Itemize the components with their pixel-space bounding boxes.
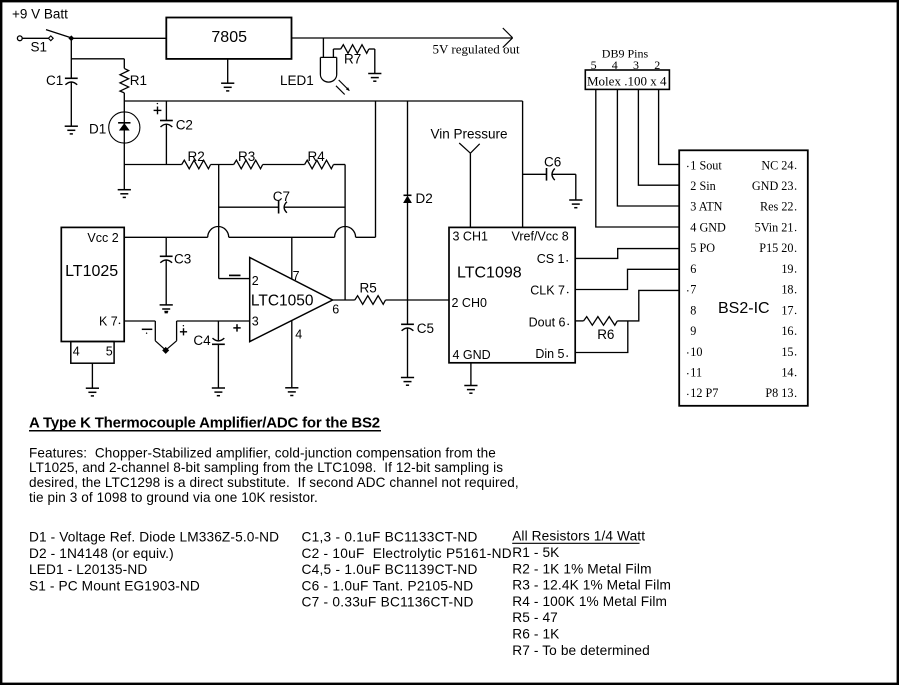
parts list resistors: [512, 529, 671, 658]
diode D2: [404, 191, 433, 206]
svg-text:8: 8: [690, 303, 696, 317]
svg-text:C2 - 10uF Electrolytic P5161-: C2 - 10uF Electrolytic P5161-ND: [302, 546, 512, 561]
svg-text:5Vin 21: 5Vin 21: [755, 220, 794, 234]
svg-text:R1 - 5K: R1 - 5K: [512, 545, 559, 560]
LT1025 pins 4,5 sub-box: [71, 342, 114, 364]
wire 5V reference rail: [124, 100, 522, 102]
svg-text:15: 15: [781, 345, 793, 359]
svg-text:D2 - 1N4148 (or equiv.): D2 - 1N4148 (or equiv.): [29, 546, 174, 561]
svg-text:C1: C1: [46, 73, 63, 88]
svg-text:19: 19: [781, 262, 793, 276]
wire 5Vref to Vref/Vcc pin: [522, 101, 524, 227]
svg-text:C2: C2: [176, 118, 193, 133]
svg-text:R2: R2: [188, 149, 205, 164]
svg-text:5: 5: [591, 58, 597, 72]
wire inverting input (R2/R3 junction down to op-amp): [218, 165, 220, 279]
svg-text:tie pin 3 of 1098 to ground vi: tie pin 3 of 1098 to ground via one 10K …: [29, 490, 318, 505]
svg-text:LED1: LED1: [280, 73, 314, 88]
wire 5V regulated rail with arrow: [292, 37, 513, 39]
wire CS to BS2 pin5: [575, 249, 679, 259]
svg-text:R7 - To be determined: R7 - To be determined: [512, 643, 650, 658]
svg-text:R7: R7: [344, 52, 361, 67]
wire D2 to output node: [407, 203, 409, 325]
svg-text:R6: R6: [597, 327, 614, 342]
svg-text:2 Sin: 2 Sin: [690, 179, 715, 193]
svg-text:4 GND: 4 GND: [690, 220, 726, 234]
svg-text:4: 4: [295, 328, 302, 342]
parts list diodes/LED/switch: [29, 530, 279, 594]
op-amp U2 LTC1050: [229, 258, 339, 342]
svg-text:18: 18: [781, 283, 793, 297]
wire op-amp pin4 to ground: [291, 321, 293, 388]
svg-text:GND 23: GND 23: [752, 179, 794, 193]
IC U1 LT1025: [61, 227, 124, 341]
svg-text:7: 7: [293, 269, 300, 283]
node Vin Pressure probe: [431, 126, 508, 227]
svg-text:BS2-IC: BS2-IC: [718, 300, 770, 317]
svg-text:S1 - PC Mount EG1903-ND: S1 - PC Mount EG1903-ND: [29, 578, 200, 593]
svg-text:A Type K Thermocouple Amplifie: A Type K Thermocouple Amplifier/ADC for …: [29, 415, 380, 432]
svg-text:CLK 7: CLK 7: [530, 284, 565, 298]
svg-text:C7 - 0.33uF BC1136CT-ND: C7 - 0.33uF BC1136CT-ND: [302, 595, 474, 610]
svg-text:4 GND: 4 GND: [453, 348, 491, 362]
svg-text:C4,5 - 1.0uF BC1139CT-ND: C4,5 - 1.0uF BC1139CT-ND: [302, 562, 478, 577]
svg-text:Molex .100 x 4: Molex .100 x 4: [587, 74, 667, 89]
svg-text:17: 17: [781, 303, 793, 317]
wire feedback R4/C7 to output: [344, 165, 346, 301]
resistor R4: [305, 149, 334, 169]
features paragraph: [29, 445, 519, 504]
svg-text:C6: C6: [544, 154, 561, 169]
ground op-amp pin4: [285, 388, 298, 396]
ground C4: [212, 388, 225, 396]
svg-text:Vin Pressure: Vin Pressure: [431, 126, 508, 141]
ground LT1025: [91, 363, 93, 388]
wire 5Vref down through D2: [407, 101, 409, 195]
wire Din to Dout node: [575, 321, 628, 353]
svg-text:DB9 Pins: DB9 Pins: [602, 47, 649, 61]
svg-text:7805: 7805: [211, 29, 247, 46]
svg-text:3: 3: [633, 58, 639, 72]
resistor R6: [575, 317, 617, 342]
svg-text:4: 4: [73, 345, 80, 359]
capacitor C3: [160, 237, 191, 305]
svg-text:C4: C4: [193, 333, 211, 348]
wire 9V branch to R1: [71, 58, 124, 60]
svg-text:11: 11: [690, 366, 702, 380]
junction 9V node: [68, 35, 74, 41]
resistor R1: [120, 59, 147, 112]
wire op-amp pin7 to Vcc rail: [291, 237, 293, 279]
svg-text:LTC1098: LTC1098: [457, 265, 522, 282]
svg-text:2: 2: [654, 58, 660, 72]
wire op-amp output: [333, 299, 355, 301]
ground C3: [160, 305, 173, 313]
wire CLK to BS2 pin6: [575, 269, 679, 289]
svg-text:All Resistors 1/4 Watt: All Resistors 1/4 Watt: [512, 529, 645, 544]
wire R3 to R4: [263, 164, 305, 166]
capacitor C1: [46, 73, 78, 126]
svg-text:5V regulated out: 5V regulated out: [433, 42, 521, 57]
svg-text:Vcc 2: Vcc 2: [87, 231, 118, 245]
svg-text:LTC1050: LTC1050: [251, 292, 314, 309]
svg-text:2: 2: [252, 274, 259, 288]
wire R4 to feedback corner: [334, 164, 346, 166]
wire 9V down to C1: [70, 38, 72, 78]
parts list capacitors: [302, 530, 512, 610]
wire ground node D1/C2/R2: [124, 164, 181, 166]
svg-text:1 Sout: 1 Sout: [690, 158, 722, 172]
svg-text:NC 24: NC 24: [761, 158, 793, 172]
wire Molex pin2 to BS2 pin1: [659, 89, 680, 164]
svg-text:C3: C3: [174, 252, 191, 267]
svg-text:Features: Chopper-Stabilized: Features: Chopper-Stabilized amplifier, …: [29, 445, 496, 460]
svg-text:S1: S1: [31, 39, 48, 54]
wire R2 to R3: [211, 164, 234, 166]
node DB9 Pins label: [591, 47, 661, 72]
wire Molex pin3 to BS2 pin2: [638, 89, 679, 185]
svg-text:desired, the LTC1298 is a dire: desired, the LTC1298 is a direct substit…: [29, 475, 519, 490]
ground C5: [401, 378, 414, 386]
wire S1 to 7805 input: [71, 37, 166, 39]
IC BS2-IC: [679, 150, 808, 405]
diode D1 (LM336Z reference): [89, 112, 140, 165]
svg-text:6: 6: [690, 262, 696, 276]
svg-text:D1: D1: [89, 121, 106, 136]
svg-text:P8 13: P8 13: [765, 386, 793, 400]
svg-text:4: 4: [612, 58, 618, 72]
svg-text:C6 - 1.0uF Tant. P2105-ND: C6 - 1.0uF Tant. P2105-ND: [302, 578, 474, 593]
svg-text:9: 9: [690, 324, 696, 338]
svg-text:LT1025: LT1025: [65, 263, 118, 280]
svg-text:R1: R1: [130, 73, 147, 88]
svg-text:3 CH1: 3 CH1: [453, 230, 488, 244]
svg-text:5 PO: 5 PO: [690, 241, 715, 255]
connector Molex .100 x 4: [585, 70, 669, 89]
capacitor C2: [154, 101, 193, 165]
ground LTC1098: [470, 363, 472, 385]
wire R6 to BS2 pin7: [617, 290, 679, 321]
svg-text:Dout 6: Dout 6: [529, 315, 566, 329]
svg-text:R3 - 12.4K 1% Metal Film: R3 - 12.4K 1% Metal Film: [512, 578, 671, 593]
svg-text:5: 5: [106, 345, 113, 359]
svg-text:Vref/Vcc 8: Vref/Vcc 8: [511, 230, 568, 244]
svg-text:C1,3 - 0.1uF BC1133CT-ND: C1,3 - 0.1uF BC1133CT-ND: [302, 530, 478, 545]
svg-text:R5 - 47: R5 - 47: [512, 610, 558, 625]
svg-text:R6 - 1K: R6 - 1K: [512, 627, 559, 642]
resistor R7: [333, 45, 374, 73]
ground D1 node: [123, 165, 125, 190]
title text: [29, 415, 381, 432]
svg-text:R3: R3: [238, 149, 255, 164]
ground C1: [65, 126, 78, 134]
svg-text:K 7: K 7: [99, 314, 118, 328]
svg-text:10: 10: [690, 345, 702, 359]
capacitor C4: [193, 321, 224, 388]
svg-text:12 P7: 12 P7: [690, 386, 718, 400]
capacitor C6: [523, 154, 576, 199]
svg-text:R2 - 1K 1% Metal Film: R2 - 1K 1% Metal Film: [512, 561, 651, 576]
ground R7: [368, 74, 381, 82]
switch S1: [17, 30, 70, 55]
svg-text:LED1 - L20135-ND: LED1 - L20135-ND: [29, 562, 147, 577]
svg-text:CS 1: CS 1: [537, 252, 565, 266]
svg-text:Res 22: Res 22: [760, 200, 794, 214]
svg-text:3: 3: [252, 315, 259, 329]
svg-text:LT1025, and 2-channel 8-bit sa: LT1025, and 2-channel 8-bit sampling fro…: [29, 460, 503, 475]
ADC U3 LTC1098: [449, 227, 575, 362]
capacitor C5: [401, 321, 434, 377]
svg-text:2 CH0: 2 CH0: [452, 296, 487, 310]
svg-text:R5: R5: [360, 281, 377, 296]
wire thermocouple to op-amp + input: [177, 320, 250, 322]
resistor R2: [182, 149, 211, 169]
resistor R5: [355, 281, 386, 305]
LED1: [280, 38, 350, 95]
regulator 7805: [166, 18, 291, 59]
svg-text:C5: C5: [417, 321, 434, 336]
wire Molex pin4 to BS2 pin3: [617, 89, 679, 206]
svg-text:P15 20: P15 20: [759, 241, 793, 255]
wire LT1025 K pin to thermocouple: [124, 320, 155, 322]
svg-text:D1 - Voltage Ref. Diode LM336Z: D1 - Voltage Ref. Diode LM336Z-5.0-ND: [29, 530, 279, 545]
svg-text:14: 14: [781, 366, 793, 380]
svg-text:16: 16: [781, 324, 793, 338]
wire Molex pin5 to BS2 pin4: [596, 89, 679, 227]
svg-text:D2: D2: [416, 191, 433, 206]
capacitor C7: [219, 189, 345, 214]
thermocouple (type K): [142, 312, 187, 354]
resistor R3: [234, 149, 263, 169]
svg-text:3 ATN: 3 ATN: [690, 200, 722, 214]
svg-text:7: 7: [690, 283, 696, 297]
ground C6: [569, 200, 582, 208]
svg-text:C7: C7: [273, 189, 290, 204]
ground 7805: [227, 59, 229, 83]
svg-text:6: 6: [332, 302, 339, 316]
svg-text:Din 5: Din 5: [535, 347, 564, 361]
svg-text:R4: R4: [308, 149, 326, 164]
svg-text:+9 V Batt: +9 V Batt: [12, 6, 68, 21]
wire R5 to CH0: [386, 299, 450, 301]
svg-text:R4 - 100K 1% Metal Film: R4 - 100K 1% Metal Film: [512, 594, 667, 609]
wire Vcc rail with hops: [124, 236, 208, 238]
